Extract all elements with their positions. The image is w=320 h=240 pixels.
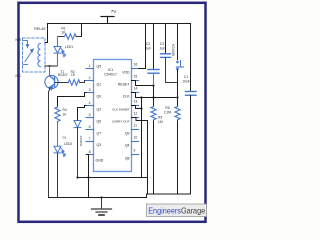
- junction D1-ground rail: [76, 176, 78, 178]
- wire pin16 VDD riser: [139, 24, 146, 69]
- svg-text:CLK: CLK: [123, 95, 130, 99]
- wire R4 to LED2: [57, 124, 59, 146]
- pin numbers 1-8: [89, 64, 91, 154]
- wire LED2 to ground rail: [57, 153, 59, 197]
- LED LED2: [54, 146, 61, 152]
- resistor R1: [58, 36, 65, 38]
- svg-text:7V: 7V: [111, 9, 118, 14]
- wire relay coil bottom to LED1/collector node: [45, 65, 58, 67]
- svg-text:Q8: Q8: [125, 157, 130, 161]
- svg-text:N/C: N/C: [16, 74, 22, 78]
- wire pin8 GND down: [87, 155, 89, 198]
- relay RELAY (dashed enclosure): [23, 38, 46, 72]
- power terminal 7V: [101, 16, 114, 18]
- wire rail to C3: [165, 24, 167, 54]
- svg-text:15: 15: [134, 75, 138, 79]
- svg-text:RESET: RESET: [118, 83, 131, 87]
- wire pin12 CARRY OUT down: [132, 118, 148, 195]
- svg-text:1: 1: [89, 64, 91, 68]
- svg-text:D1: D1: [63, 136, 67, 140]
- svg-text:LED2: LED2: [64, 142, 72, 146]
- junction CLK INHIBIT: [140, 107, 142, 109]
- svg-text:5: 5: [89, 113, 91, 117]
- svg-text:CARRY OUT: CARRY OUT: [112, 120, 130, 124]
- svg-text:RELAY: RELAY: [34, 27, 46, 31]
- svg-text:VDD: VDD: [122, 71, 130, 75]
- svg-text:12: 12: [134, 112, 138, 116]
- wire relay coil top to rail: [45, 24, 48, 43]
- wire C3 to switch net: [166, 58, 178, 83]
- resistor R5 2.2M: [175, 107, 180, 122]
- svg-text:Q6: Q6: [97, 120, 102, 124]
- svg-text:3: 3: [89, 88, 91, 92]
- svg-text:.1uF: .1uF: [145, 47, 152, 51]
- svg-text:1N4007: 1N4007: [79, 135, 83, 146]
- wire top supply rail: [48, 23, 191, 25]
- svg-text:14: 14: [134, 87, 138, 91]
- svg-text:GND: GND: [96, 159, 104, 163]
- wire collector: [49, 66, 51, 76]
- svg-text:SWITCH: SWITCH: [172, 43, 176, 56]
- node collector junction: [48, 65, 50, 67]
- svg-text:C1: C1: [184, 75, 188, 79]
- wire rail to C1: [190, 24, 192, 91]
- svg-text:C3: C3: [160, 42, 164, 46]
- LED LED1: [57, 37, 59, 47]
- svg-text:9: 9: [134, 149, 136, 153]
- transistor T1 BC547: [45, 75, 58, 88]
- wire pin3 Q0 to R4: [58, 93, 87, 108]
- svg-text:.1uF: .1uF: [159, 47, 166, 51]
- op-amp/counter IC1 CD4017: [94, 60, 132, 172]
- svg-text:CLK INHIBIT: CLK INHIBIT: [112, 108, 130, 112]
- svg-text:Q7: Q7: [97, 132, 102, 136]
- wire ground rail lower: [49, 197, 147, 199]
- wire rail to C2: [153, 24, 155, 69]
- svg-text:Q2: Q2: [97, 108, 102, 112]
- wire pin15 RESET: [132, 81, 154, 86]
- svg-text:LED1: LED1: [65, 45, 73, 49]
- wire R5 to ground rail: [177, 121, 179, 194]
- IC right pin stubs (pins 16-9): [132, 69, 139, 155]
- junction GND wire and upper rail: [87, 176, 89, 178]
- wire pin4 Q2 to D1: [78, 106, 87, 121]
- pin labels Q5 Q1 Q0 Q2 Q6 Q7 Q3 GND: [96, 65, 104, 163]
- wire CLK-inhibit drop to upper rail: [141, 98, 143, 178]
- svg-text:2: 2: [89, 76, 91, 80]
- wire RESET net to R3: [153, 86, 155, 107]
- junction RESET-C2-R3: [152, 84, 154, 86]
- resistor R2: [55, 82, 68, 84]
- border frame: [19, 3, 206, 222]
- svg-text:8: 8: [89, 150, 91, 154]
- svg-text:Q1: Q1: [97, 83, 102, 87]
- relay switch arm and contacts: [23, 41, 34, 65]
- svg-text:6: 6: [89, 125, 91, 129]
- svg-text:10uF: 10uF: [182, 80, 190, 84]
- svg-text:N/R: N/R: [16, 38, 22, 42]
- diode D1 1N4007: [74, 121, 81, 128]
- svg-text:Q9: Q9: [125, 132, 130, 136]
- svg-text:7: 7: [89, 137, 91, 141]
- svg-text:C2: C2: [146, 42, 150, 46]
- svg-text:BC547: BC547: [58, 73, 68, 77]
- svg-text:4: 4: [89, 101, 91, 105]
- svg-text:13: 13: [134, 100, 138, 104]
- svg-text:10: 10: [134, 136, 138, 140]
- junction CLK crossing: [152, 96, 154, 98]
- resistor R4: [55, 107, 60, 124]
- svg-text:Q3: Q3: [97, 143, 102, 147]
- wire R1 to rail: [81, 24, 83, 37]
- junction CLK net left: [140, 96, 142, 98]
- wire D1 to ground rail: [77, 128, 79, 178]
- svg-text:1M: 1M: [158, 120, 163, 124]
- ground symbol: [92, 198, 112, 216]
- svg-text:CD4017: CD4017: [104, 73, 117, 77]
- svg-text:EngineersGarage: EngineersGarage: [148, 206, 205, 216]
- svg-text:IC1: IC1: [108, 68, 114, 72]
- wire ground rail right: [147, 193, 191, 195]
- wire ground rail upper: [78, 177, 148, 179]
- relay coil: [38, 44, 41, 67]
- junction CLK-switch-R5: [176, 96, 178, 98]
- svg-text:Q4: Q4: [125, 144, 130, 148]
- svg-text:Q0: Q0: [97, 95, 102, 99]
- svg-text:16: 16: [134, 63, 138, 67]
- wire switch to R5: [177, 70, 179, 107]
- wire rail to switch: [177, 24, 179, 60]
- watermark EngineersGarage: [147, 204, 207, 217]
- IC left pin stubs (pins 1-8): [86, 69, 94, 155]
- svg-text:2.2M: 2.2M: [164, 110, 172, 114]
- svg-text:1K: 1K: [61, 31, 66, 35]
- wire R3 to ground rail: [153, 121, 155, 194]
- wire pin13 CLK INHIBIT: [132, 106, 142, 109]
- pin labels VDD RESET CLK CLK-INHIBIT CARRY-OUT Q9 Q4 Q8: [112, 71, 130, 161]
- wire emitter to ground rail: [49, 88, 50, 198]
- pin numbers 16-9: [134, 63, 138, 153]
- svg-text:11: 11: [134, 124, 138, 128]
- wire C1 to ground rail: [190, 96, 192, 195]
- svg-text:Q5: Q5: [97, 65, 102, 69]
- junction ground symbol: [100, 196, 102, 198]
- wire ground rail step: [146, 194, 148, 198]
- wire pin14 CLK: [132, 93, 178, 98]
